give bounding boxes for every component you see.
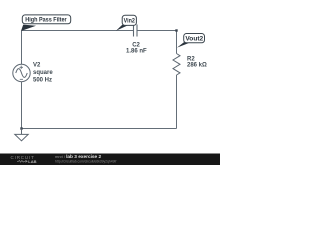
wire right vertical upper xyxy=(176,31,178,54)
footer text xyxy=(55,154,116,163)
svg-text:1.86 nF: 1.86 nF xyxy=(126,49,147,55)
svg-text:C2: C2 xyxy=(132,42,140,48)
wire bottom horizontal xyxy=(22,128,177,130)
svg-text:LAB: LAB xyxy=(28,159,36,164)
wire right vertical lower xyxy=(176,75,178,129)
flag Vin2 xyxy=(116,25,127,31)
svg-text:High Pass Filter: High Pass Filter xyxy=(25,16,67,23)
node junction bottom-left xyxy=(20,127,22,129)
svg-text:Vin2: Vin2 xyxy=(124,17,136,24)
svg-text:286 kΩ: 286 kΩ xyxy=(187,63,207,69)
svg-text:http://circuitlab.com/circuit/: http://circuitlab.com/circuit/e6k39y2qh4… xyxy=(55,159,116,163)
voltage source V2 xyxy=(13,64,30,81)
flag Vout2 xyxy=(177,42,189,47)
wire top horizontal right of capacitor xyxy=(137,30,177,32)
wire top-left vertical xyxy=(21,31,23,65)
flag label High Pass Filter xyxy=(21,25,36,31)
wire top horizontal left of capacitor xyxy=(22,30,134,32)
footer logo CIRCUIT LAB xyxy=(11,155,37,164)
svg-text:Vout2: Vout2 xyxy=(185,36,203,43)
ground xyxy=(15,129,28,141)
svg-text:square: square xyxy=(33,70,53,76)
svg-text:V2: V2 xyxy=(33,62,41,68)
capacitor C2 xyxy=(134,25,138,37)
resistor R2 xyxy=(173,54,180,76)
node junction top-right xyxy=(175,29,177,31)
svg-text:500 Hz: 500 Hz xyxy=(33,78,52,84)
footer bar xyxy=(0,154,220,166)
wire left vertical lower xyxy=(21,82,23,129)
